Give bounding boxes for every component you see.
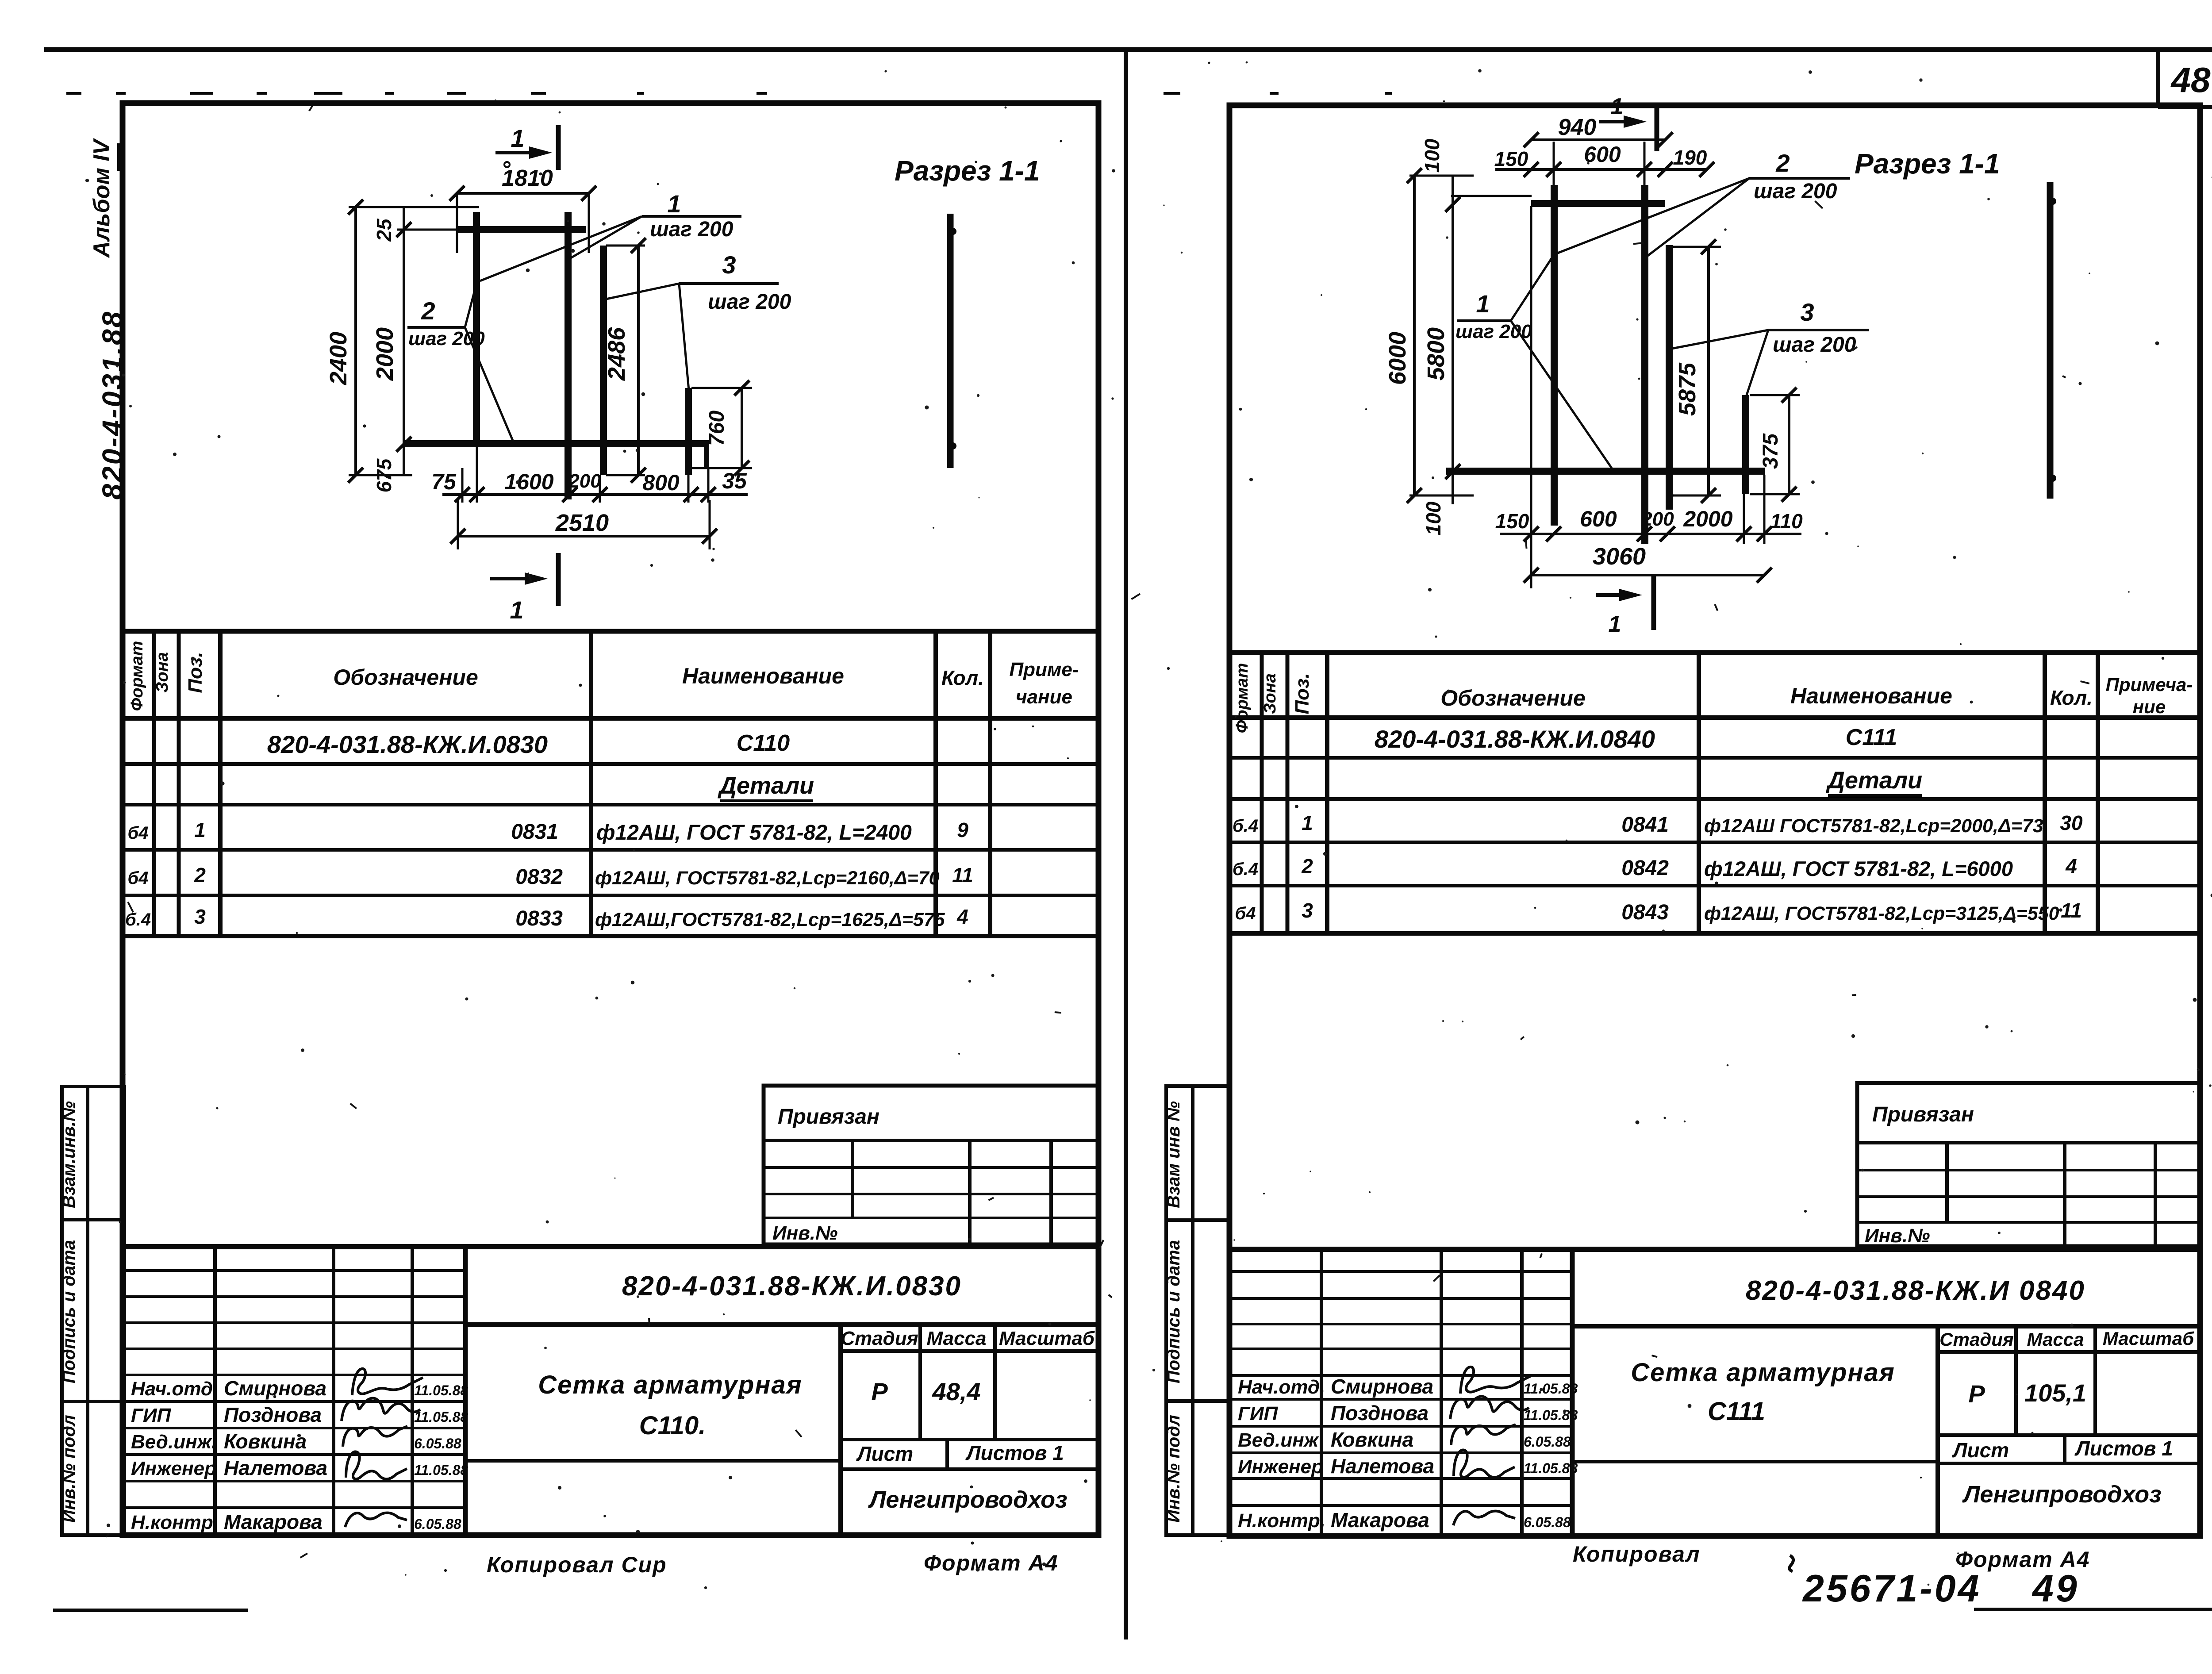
svg-text:ф12АШ, ГОСТ 5781-82, L=2400: ф12АШ, ГОСТ 5781-82, L=2400 bbox=[596, 821, 912, 845]
svg-text:11.05.88: 11.05.88 bbox=[1524, 1381, 1578, 1397]
right razrez section line bbox=[2049, 182, 2056, 499]
svg-text:11: 11 bbox=[2061, 899, 2082, 922]
left dim 2510 bbox=[450, 498, 717, 549]
svg-text:б.4: б.4 bbox=[125, 910, 151, 929]
svg-text:шаг 200: шаг 200 bbox=[708, 290, 791, 314]
svg-text:ф12АШ, ГОСТ 5781-82, L=6000: ф12АШ, ГОСТ 5781-82, L=6000 bbox=[1704, 857, 2013, 880]
svg-text:1: 1 bbox=[194, 818, 206, 841]
svg-text:6.05.88: 6.05.88 bbox=[414, 1436, 461, 1451]
right dim 5875 bbox=[1673, 239, 1721, 503]
svg-text:б4: б4 bbox=[127, 823, 148, 843]
right item 2 bbox=[1233, 855, 2077, 880]
svg-text:ф12АШ, ГОСТ5781-82,Lср=3125,Δ=: ф12АШ, ГОСТ5781-82,Lср=3125,Δ=550 bbox=[1704, 903, 2059, 924]
svg-text:Листов 1: Листов 1 bbox=[2074, 1437, 2173, 1460]
right item 1 bbox=[1233, 811, 2083, 837]
svg-text:Ленгипроводхоз: Ленгипроводхоз bbox=[868, 1486, 1067, 1513]
svg-text:Инв.№ подл: Инв.№ подл bbox=[1164, 1415, 1183, 1523]
svg-text:шаг 200: шаг 200 bbox=[1773, 333, 1856, 357]
svg-text:Сетка арматурная: Сетка арматурная bbox=[538, 1371, 803, 1399]
svg-text:б.4: б.4 bbox=[1233, 816, 1258, 836]
svg-text:Разрез 1-1: Разрез 1-1 bbox=[1855, 148, 2000, 180]
svg-text:Инв.№: Инв.№ bbox=[772, 1222, 837, 1244]
svg-text:0843: 0843 bbox=[1621, 901, 1669, 924]
right leader pos1 bbox=[1455, 254, 1612, 468]
right bottom dim chain 150 600 200 2000 110 bbox=[1495, 206, 1803, 544]
svg-text:2000: 2000 bbox=[1683, 507, 1732, 531]
svg-text:375: 375 bbox=[1759, 433, 1782, 469]
right mesh bottom bar bbox=[1446, 468, 1765, 475]
left signature rows text bbox=[131, 1377, 468, 1533]
svg-text:б.4: б.4 bbox=[1233, 860, 1258, 879]
svg-text:1: 1 bbox=[1611, 94, 1624, 119]
svg-text:Стадия: Стадия bbox=[1939, 1329, 2013, 1350]
svg-text:600: 600 bbox=[1584, 142, 1621, 167]
right dim 375 bbox=[1750, 388, 1800, 502]
svg-text:820-4-031.88: 820-4-031.88 bbox=[96, 310, 128, 500]
right dim chain 150 600 190 bbox=[1494, 142, 1714, 201]
svg-text:110: 110 bbox=[1770, 510, 1803, 533]
left dim 1810 bbox=[449, 162, 596, 253]
svg-text:600: 600 bbox=[1580, 507, 1617, 531]
left leader pos3 bbox=[606, 251, 791, 390]
svg-text:820-4-031.88-КЖ.И 0840: 820-4-031.88-КЖ.И 0840 bbox=[1746, 1275, 2085, 1306]
svg-text:Примеча-: Примеча- bbox=[2106, 674, 2193, 695]
svg-text:Поз.: Поз. bbox=[1291, 673, 1313, 714]
svg-text:Альбом IV: Альбом IV bbox=[89, 138, 115, 258]
right items table grid bbox=[1229, 653, 2199, 933]
svg-text:Формат: Формат bbox=[128, 641, 146, 711]
left items row group bbox=[267, 730, 814, 801]
svg-text:Ленгипроводхоз: Ленгипроводхоз bbox=[1962, 1481, 2161, 1508]
svg-text:Детали: Детали bbox=[718, 772, 814, 799]
svg-text:Копировал: Копировал bbox=[1573, 1542, 1701, 1566]
svg-text:Налетова: Налетова bbox=[1331, 1455, 1434, 1478]
svg-text:Обозначение: Обозначение bbox=[333, 665, 478, 690]
svg-text:200: 200 bbox=[1641, 508, 1674, 530]
svg-text:150: 150 bbox=[1495, 510, 1529, 533]
svg-text:Смирнова: Смирнова bbox=[1331, 1375, 1433, 1398]
svg-text:Инженер: Инженер bbox=[1238, 1456, 1323, 1478]
page number box 48 bbox=[2158, 50, 2212, 107]
svg-text:Обозначение: Обозначение bbox=[1440, 686, 1586, 710]
svg-text:150: 150 bbox=[1494, 147, 1528, 170]
svg-text:0831: 0831 bbox=[511, 820, 558, 844]
right margin strip boxes bbox=[1164, 1086, 1229, 1535]
left mesh vertical bar V2 bbox=[565, 212, 572, 499]
left mesh vertical bar V4 bbox=[685, 388, 692, 475]
svg-text:35: 35 bbox=[722, 468, 747, 493]
svg-text:30: 30 bbox=[2060, 811, 2083, 834]
svg-text:5800: 5800 bbox=[1423, 327, 1449, 380]
svg-text:1: 1 bbox=[510, 596, 523, 624]
left section mark top bbox=[495, 124, 558, 170]
svg-text:Н.контр.: Н.контр. bbox=[1238, 1510, 1325, 1532]
svg-text:Приме-: Приме- bbox=[1009, 659, 1079, 680]
svg-text:Детали: Детали bbox=[1826, 767, 1922, 794]
svg-text:Кол.: Кол. bbox=[941, 666, 984, 689]
svg-text:2: 2 bbox=[194, 864, 206, 887]
svg-text:3: 3 bbox=[1302, 899, 1313, 922]
svg-text:2: 2 bbox=[1775, 149, 1790, 177]
svg-text:Копировал Сир: Копировал Сир bbox=[487, 1552, 667, 1577]
svg-text:Масштаб: Масштаб bbox=[999, 1328, 1095, 1349]
svg-text:Наименование: Наименование bbox=[682, 664, 844, 688]
svg-text:11.05.88: 11.05.88 bbox=[1524, 1407, 1578, 1423]
right dim 100 top bbox=[1421, 138, 1532, 196]
svg-text:б4: б4 bbox=[127, 868, 148, 888]
right mesh vertical bar V4 bbox=[1742, 395, 1749, 494]
svg-text:0832: 0832 bbox=[515, 865, 563, 889]
right leader pos3 bbox=[1672, 298, 1869, 395]
left title name cell bbox=[465, 1325, 841, 1535]
svg-text:Зона: Зона bbox=[1261, 673, 1279, 714]
left signatures bbox=[342, 1369, 423, 1527]
svg-text:С111: С111 bbox=[1846, 725, 1897, 750]
svg-text:4: 4 bbox=[2065, 855, 2077, 878]
svg-text:3060: 3060 bbox=[1593, 543, 1646, 570]
svg-text:Налетова: Налетова bbox=[224, 1456, 327, 1479]
svg-text:760: 760 bbox=[705, 411, 729, 446]
svg-text:48: 48 bbox=[2170, 60, 2211, 100]
left item 3 bbox=[125, 905, 968, 930]
svg-text:ГИП: ГИП bbox=[131, 1405, 172, 1426]
left razrez label bbox=[895, 155, 1040, 187]
svg-text:шаг 200: шаг 200 bbox=[1754, 180, 1837, 203]
svg-text:6.05.88: 6.05.88 bbox=[1524, 1434, 1571, 1450]
svg-text:Макарова: Макарова bbox=[1331, 1509, 1429, 1532]
left list row bbox=[841, 1440, 1096, 1469]
svg-text:Инженер: Инженер bbox=[131, 1458, 216, 1479]
svg-text:0841: 0841 bbox=[1621, 813, 1669, 837]
svg-text:Зона: Зона bbox=[153, 652, 172, 693]
left stadia massa masshtab bbox=[841, 1325, 1096, 1440]
svg-text:48,4: 48,4 bbox=[932, 1378, 981, 1405]
left mesh vertical bar V3 bbox=[600, 246, 607, 475]
right section mark top bbox=[1599, 94, 1657, 151]
svg-text:Стадия: Стадия bbox=[841, 1328, 918, 1349]
svg-text:1: 1 bbox=[1476, 290, 1490, 318]
left bottom captions bbox=[487, 1551, 1059, 1577]
right signatures bbox=[1450, 1367, 1531, 1525]
svg-text:Привязан: Привязан bbox=[1872, 1103, 1974, 1126]
svg-text:9: 9 bbox=[957, 818, 968, 841]
svg-text:Ковкина: Ковкина bbox=[1331, 1428, 1413, 1451]
svg-text:Позднова: Позднова bbox=[224, 1403, 322, 1426]
svg-text:ф12АШ ГОСТ5781-82,Lср=2000,Δ=7: ф12АШ ГОСТ5781-82,Lср=2000,Δ=73 bbox=[1704, 815, 2043, 837]
svg-text:105,1: 105,1 bbox=[2024, 1379, 2086, 1407]
svg-text:4: 4 bbox=[956, 905, 968, 928]
bottom scan lines bbox=[53, 1609, 2212, 1610]
left margin strip boxes bbox=[59, 1087, 124, 1535]
left org cell bbox=[868, 1486, 1067, 1513]
svg-text:1810: 1810 bbox=[502, 165, 553, 191]
svg-text:Привязан: Привязан bbox=[778, 1105, 879, 1129]
svg-text:Масса: Масса bbox=[926, 1328, 986, 1349]
svg-text:200: 200 bbox=[568, 470, 601, 492]
svg-text:1: 1 bbox=[511, 124, 524, 152]
svg-text:2486: 2486 bbox=[603, 327, 630, 381]
svg-text:шаг 200: шаг 200 bbox=[1455, 321, 1532, 342]
svg-text:С110: С110 bbox=[737, 730, 790, 756]
svg-text:100: 100 bbox=[1422, 501, 1445, 535]
right doc number cell bbox=[1572, 1275, 2199, 1326]
svg-text:Инв.№: Инв.№ bbox=[1865, 1225, 1930, 1247]
svg-text:1600: 1600 bbox=[504, 469, 553, 494]
right title block top line bbox=[1229, 1247, 2199, 1252]
svg-text:б4: б4 bbox=[1235, 904, 1256, 923]
left razrez section line bbox=[949, 214, 956, 468]
right dim 940 bbox=[1524, 115, 1673, 147]
svg-text:Нач.отд.: Нач.отд. bbox=[131, 1378, 218, 1400]
left dim 2486 bbox=[603, 238, 646, 483]
svg-text:190: 190 bbox=[1673, 146, 1707, 169]
svg-text:2510: 2510 bbox=[555, 510, 609, 536]
svg-text:Вед.инж: Вед.инж bbox=[1238, 1429, 1320, 1451]
svg-text:6.05.88: 6.05.88 bbox=[1524, 1514, 1571, 1530]
left privyazan grid bbox=[764, 1105, 1098, 1244]
left item 2 bbox=[127, 864, 973, 889]
scan fold dashes bbox=[66, 92, 1392, 95]
svg-text:11.05.88: 11.05.88 bbox=[414, 1462, 468, 1478]
svg-text:6000: 6000 bbox=[1384, 332, 1411, 385]
svg-text:Разрез 1-1: Разрез 1-1 bbox=[895, 155, 1040, 187]
right section mark bottom bbox=[1596, 574, 1654, 637]
svg-text:ф12АШ, ГОСТ5781-82,Lср=2160,Δ=: ф12АШ, ГОСТ5781-82,Lср=2160,Δ=70 bbox=[595, 868, 940, 889]
svg-text:Н.контр.: Н.контр. bbox=[131, 1512, 219, 1533]
left dim 2400 bbox=[325, 200, 479, 483]
svg-text:100: 100 bbox=[1421, 138, 1444, 173]
right privyazan grid bbox=[1857, 1103, 2199, 1247]
right signature rows text bbox=[1238, 1375, 1578, 1532]
left leader pos2 bbox=[407, 279, 515, 445]
svg-text:5875: 5875 bbox=[1674, 362, 1701, 416]
right items table header bbox=[1233, 663, 2193, 733]
left leader pos1 bbox=[480, 190, 741, 281]
svg-text:Ковкина: Ковкина bbox=[224, 1430, 307, 1453]
svg-text:Инв.№ подл: Инв.№ подл bbox=[59, 1415, 79, 1523]
svg-text:11.05.88: 11.05.88 bbox=[414, 1409, 468, 1425]
svg-text:1: 1 bbox=[1302, 811, 1313, 834]
svg-text:800: 800 bbox=[642, 470, 680, 495]
right mesh vertical bar V3 bbox=[1666, 245, 1673, 510]
svg-text:С110.: С110. bbox=[639, 1411, 706, 1440]
svg-text:Кол.: Кол. bbox=[2050, 686, 2093, 709]
svg-text:Р: Р bbox=[1968, 1380, 1985, 1408]
right razrez label bbox=[1855, 148, 2000, 180]
right mesh vertical bar V1 bbox=[1551, 185, 1558, 526]
sheet top border line bbox=[44, 47, 2212, 52]
left margin label 820-4-031.88 bbox=[96, 310, 128, 500]
left dim 760 bbox=[691, 380, 752, 476]
svg-text:Формат: Формат bbox=[1233, 663, 1252, 733]
svg-text:ГИП: ГИП bbox=[1238, 1403, 1279, 1424]
svg-text:11.05.88: 11.05.88 bbox=[1524, 1460, 1578, 1476]
svg-text:Наименование: Наименование bbox=[1790, 683, 1952, 708]
svg-text:25: 25 bbox=[373, 218, 396, 242]
left mesh top bar bbox=[457, 226, 586, 233]
svg-text:25671-04 49: 25671-04 49 bbox=[1802, 1567, 2079, 1610]
svg-text:Взам.инв.№: Взам.инв.№ bbox=[59, 1101, 79, 1208]
svg-text:75: 75 bbox=[431, 469, 457, 494]
svg-text:3: 3 bbox=[1800, 298, 1814, 326]
svg-text:Лист: Лист bbox=[856, 1442, 913, 1465]
svg-text:0833: 0833 bbox=[515, 907, 563, 930]
left page frame bbox=[123, 103, 1098, 1535]
svg-text:1: 1 bbox=[667, 190, 681, 218]
svg-text:820-4-031.88-КЖ.И.0830: 820-4-031.88-КЖ.И.0830 bbox=[622, 1271, 962, 1302]
svg-text:Макарова: Макарова bbox=[224, 1510, 323, 1533]
right dim 5800 with 100s bbox=[1422, 176, 1460, 535]
right bottom captions bbox=[1573, 1542, 2090, 1610]
left mesh vertical bar V1 bbox=[473, 212, 480, 447]
left items table header bbox=[128, 641, 1079, 711]
svg-text:Подпись и дата: Подпись и дата bbox=[1164, 1240, 1183, 1383]
right stadia massa masshtab bbox=[1938, 1326, 2199, 1435]
right leader pos2 bbox=[1558, 149, 1850, 257]
right mesh top bar bbox=[1531, 200, 1665, 207]
right signature table grid bbox=[1229, 1249, 1572, 1536]
left privyazan box bbox=[764, 1086, 1098, 1244]
right list row bbox=[1938, 1435, 2199, 1463]
svg-text:2: 2 bbox=[421, 297, 435, 325]
svg-text:С111: С111 bbox=[1708, 1397, 1765, 1426]
right privyazan box bbox=[1857, 1083, 2199, 1246]
svg-text:ф12АШ,ГОСТ5781-82,Lср=1625,Δ=5: ф12АШ,ГОСТ5781-82,Lср=1625,Δ=575 bbox=[595, 909, 945, 930]
svg-text:820-4-031.88-КЖ.И.0830: 820-4-031.88-КЖ.И.0830 bbox=[267, 730, 548, 758]
svg-text:Формат А4: Формат А4 bbox=[924, 1551, 1059, 1575]
svg-text:Нач.отд.: Нач.отд. bbox=[1238, 1376, 1325, 1398]
left section mark bottom bbox=[490, 553, 558, 624]
svg-text:0842: 0842 bbox=[1621, 856, 1669, 880]
svg-text:чание: чание bbox=[1016, 686, 1072, 708]
svg-text:Позднова: Позднова bbox=[1331, 1401, 1429, 1424]
right mesh vertical bar V2 bbox=[1641, 185, 1648, 544]
svg-text:Масса: Масса bbox=[2027, 1329, 2084, 1350]
svg-text:675: 675 bbox=[373, 458, 396, 492]
right item 3 bbox=[1235, 899, 2081, 924]
sheet centre divider bbox=[1124, 50, 1128, 1639]
left dim chain 25 2000 675 bbox=[372, 207, 458, 492]
svg-text:11: 11 bbox=[952, 864, 973, 887]
svg-text:Масштаб: Масштаб bbox=[2103, 1328, 2194, 1349]
right title name cell bbox=[1572, 1326, 1938, 1536]
left items table grid bbox=[125, 631, 1096, 936]
left bottom dim chain 75 1600 200 800 35 bbox=[431, 447, 748, 503]
left title block top line bbox=[125, 1244, 1096, 1249]
svg-text:2000: 2000 bbox=[372, 327, 398, 381]
svg-text:2400: 2400 bbox=[325, 332, 352, 385]
svg-text:Подпись и дата: Подпись и дата bbox=[59, 1240, 79, 1383]
right page frame bbox=[1229, 105, 2200, 1536]
right org cell bbox=[1962, 1481, 2161, 1508]
left item 1 bbox=[127, 818, 968, 845]
svg-text:1: 1 bbox=[1609, 611, 1621, 637]
svg-text:11.05.88: 11.05.88 bbox=[414, 1382, 468, 1398]
svg-text:ние: ние bbox=[2133, 696, 2166, 717]
svg-text:Сетка арматурная: Сетка арматурная bbox=[1631, 1358, 1895, 1387]
svg-text:6.05.88: 6.05.88 bbox=[414, 1516, 461, 1532]
svg-text:Лист: Лист bbox=[1952, 1439, 2009, 1462]
svg-text:820-4-031.88-КЖ.И.0840: 820-4-031.88-КЖ.И.0840 bbox=[1375, 725, 1655, 753]
svg-text:Вед.инж.: Вед.инж. bbox=[131, 1431, 217, 1453]
left signature table grid bbox=[125, 1247, 465, 1535]
svg-text:шаг 200: шаг 200 bbox=[650, 218, 733, 241]
svg-text:940: 940 bbox=[1558, 115, 1597, 140]
svg-text:Взам инв №: Взам инв № bbox=[1164, 1101, 1183, 1208]
right dim 3060 bbox=[1524, 543, 1772, 588]
svg-text:2: 2 bbox=[1301, 855, 1313, 878]
right dim 6000 bbox=[1384, 168, 1474, 503]
svg-text:3: 3 bbox=[194, 905, 206, 928]
svg-text:Поз.: Поз. bbox=[184, 652, 206, 693]
left margin label Album IV bbox=[89, 138, 119, 258]
left doc number cell bbox=[465, 1271, 1096, 1325]
svg-text:Р: Р bbox=[871, 1378, 888, 1405]
svg-text:3: 3 bbox=[722, 251, 736, 279]
svg-text:Листов 1: Листов 1 bbox=[965, 1441, 1064, 1464]
right items row group bbox=[1375, 725, 1922, 795]
left mesh bottom bar bbox=[405, 440, 709, 469]
